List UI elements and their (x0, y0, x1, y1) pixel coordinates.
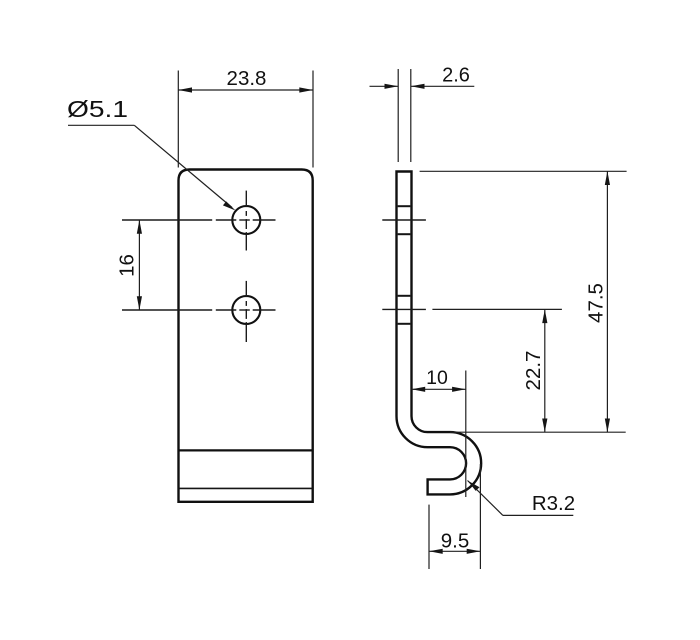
dimension 47.5 dim line (606, 171, 608, 432)
dimension 23.8 dim line (178, 89, 313, 91)
label Ø5.1 leader diagonal (134, 125, 232, 207)
label R3.2 leader arrowhead (468, 481, 480, 491)
bend line upper (front view) (179, 449, 313, 451)
hole 1 (upper, front view) (232, 206, 260, 234)
dimension 16 arrow down (137, 296, 142, 310)
dimension 23.8 arrow left (178, 87, 192, 92)
hole 1 projection lines (side view) (398, 206, 411, 234)
hole 2 projection lines (side view) (398, 296, 411, 324)
hole 2 (lower, front view) (232, 296, 260, 324)
dimension 47.5 arrow down (605, 419, 610, 433)
side view profile (397, 172, 482, 495)
label R3.2 leader underline (503, 514, 573, 516)
dimension 10 arrow left (412, 387, 426, 392)
svg-text:47.5: 47.5 (585, 283, 608, 323)
dimension 47.5 top extension line (420, 170, 627, 172)
dimension 10 dim line (412, 388, 466, 390)
dimension 47.5 arrow up (605, 171, 610, 185)
hole 1 center mark vertical (245, 191, 247, 251)
hole 2 center mark vertical (245, 281, 247, 342)
dimension 10 arrow right (452, 387, 466, 392)
dimension 9.5 right extension line (479, 464, 481, 569)
dimension 47.5 / 22.7 bottom extension line (450, 431, 626, 433)
dimension 9.5 dim line (429, 550, 480, 552)
hole 1 center mark horizontal / ext line for 16 (122, 219, 276, 221)
label Ø5.1 leader arrowhead (223, 201, 236, 210)
dimension 23.8 extension lines (178, 71, 313, 168)
dimension 2.6 arrow right (outside pointing left) (411, 84, 425, 89)
dimension 10 right extension line (465, 371, 467, 498)
svg-text:10: 10 (426, 367, 448, 389)
dimension 2.6 extension lines (398, 69, 411, 162)
svg-text:22.7: 22.7 (522, 351, 545, 391)
dimension 9.5 left extension line (428, 505, 430, 569)
dimension 2.6 dim line left (370, 85, 399, 87)
dimension 22.7 arrow up (542, 309, 547, 323)
dimension 2.6 arrow left (outside pointing right) (385, 84, 399, 89)
hole 2 center line (side view) (382, 308, 426, 310)
hole 2 center mark horizontal / ext line for 16 (122, 309, 276, 311)
dimension 22.7 dim line (544, 309, 546, 432)
dimension 9.5 arrow right (467, 549, 481, 554)
svg-text:23.8: 23.8 (227, 67, 267, 90)
dimension 22.7 top extension line (432, 308, 562, 310)
svg-text:2.6: 2.6 (442, 65, 470, 87)
svg-text:9.5: 9.5 (441, 530, 470, 553)
dimension 16 dim line (138, 220, 140, 310)
bend line lower (front view) (179, 487, 313, 489)
hole 1 center line (side view) (382, 219, 426, 221)
dimension 23.8 arrow right (299, 87, 313, 92)
dimension 2.6 dim line right (411, 85, 475, 87)
dimension 16 arrow up (137, 220, 142, 234)
dimension 22.7 arrow down (542, 419, 547, 433)
front view outline (179, 170, 313, 502)
svg-text:16: 16 (116, 254, 139, 277)
dimension 9.5 arrow left (429, 549, 443, 554)
label R3.2 leader diagonal (468, 481, 503, 516)
svg-text:R3.2: R3.2 (532, 492, 575, 515)
label Ø5.1 leader underline (68, 124, 134, 126)
svg-text:Ø5.1: Ø5.1 (67, 96, 128, 122)
